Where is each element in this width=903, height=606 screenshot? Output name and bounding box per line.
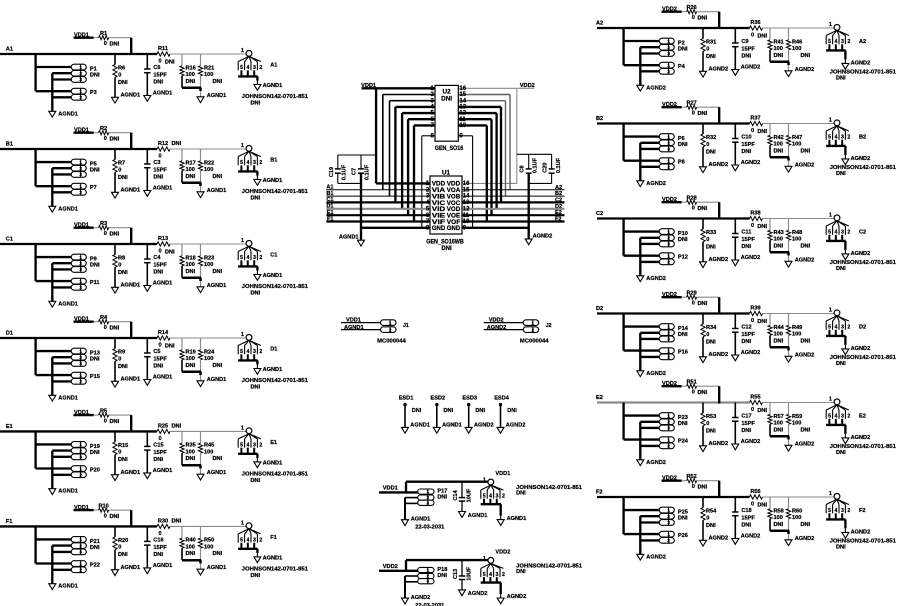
ground AGND2 under C10 (732, 165, 739, 171)
ground AGND1 under jack (254, 369, 261, 375)
svg-text:2: 2 (667, 355, 670, 360)
svg-text:DNI: DNI (774, 427, 784, 433)
ground AGND2 under connectors (637, 371, 644, 377)
wire C2 main horizontal (597, 217, 745, 219)
svg-text:3: 3 (667, 337, 670, 342)
svg-text:100: 100 (774, 515, 783, 521)
svg-text:2: 2 (847, 230, 850, 236)
svg-text:100: 100 (204, 72, 213, 78)
svg-text:P9: P9 (90, 257, 97, 263)
svg-text:AGND2: AGND2 (709, 352, 729, 358)
svg-text:DNI: DNI (836, 171, 846, 177)
wire connector pins to ground (639, 238, 641, 276)
svg-text:100: 100 (204, 544, 213, 550)
svg-text:DNI: DNI (741, 149, 751, 155)
wire decoupling rail left (338, 154, 376, 156)
svg-text:0: 0 (104, 136, 107, 142)
svg-text:DNI: DNI (836, 450, 846, 456)
svg-text:10UF: 10UF (466, 488, 472, 502)
svg-text:1: 1 (79, 160, 82, 165)
svg-text:R33: R33 (706, 230, 716, 236)
svg-text:AGND1: AGND1 (153, 186, 173, 192)
svg-text:0: 0 (118, 167, 121, 173)
svg-text:AGND1: AGND1 (58, 395, 78, 401)
svg-text:DNI: DNI (475, 408, 485, 414)
svg-text:3: 3 (667, 147, 670, 152)
svg-text:MC000044: MC000044 (520, 339, 550, 345)
wire VDD corner drop (718, 12, 720, 29)
capacitor C3 15PF DNI (146, 149, 148, 164)
svg-text:1: 1 (667, 134, 670, 139)
svg-text:R35: R35 (186, 443, 196, 449)
wire connector pins to ground (51, 263, 53, 301)
capacitor C18 15PF DNI (734, 497, 736, 512)
svg-text:C8: C8 (520, 165, 526, 172)
connector jack JOHNSON142-0701-851 DNI (488, 558, 494, 564)
resistor R55 0 DNI series (750, 400, 763, 404)
svg-text:DNI: DNI (741, 428, 751, 434)
ground AGND1 under R6 (112, 97, 119, 103)
svg-text:R57: R57 (774, 414, 784, 420)
wire to jack (745, 27, 750, 29)
resistor R17 100 DNI (181, 149, 183, 161)
wire D1 bus row (326, 208, 430, 210)
wire connector pins to ground (51, 168, 53, 206)
svg-text:R22: R22 (204, 160, 214, 166)
svg-text:DNI: DNI (110, 137, 120, 143)
svg-text:DNI: DNI (213, 174, 223, 180)
svg-text:GND: GND (447, 225, 461, 232)
svg-text:4: 4 (247, 65, 250, 71)
wire VDD rail (74, 321, 94, 323)
svg-text:15PF: 15PF (741, 237, 755, 243)
connector P20 2-pin (71, 466, 86, 472)
svg-text:DNI: DNI (678, 47, 688, 53)
svg-text:1: 1 (667, 348, 670, 353)
svg-text:P11: P11 (90, 280, 100, 286)
svg-text:0: 0 (158, 59, 161, 65)
resistor R21 100 DNI (200, 54, 202, 66)
wire U2 pin12 routing (458, 112, 496, 114)
svg-text:2: 2 (79, 543, 82, 548)
wire resistor bottoms join (182, 277, 201, 280)
wire VDD rail (74, 227, 94, 229)
svg-text:1: 1 (483, 477, 486, 483)
ground AGND1 under C5 (144, 380, 151, 386)
wire to jack (745, 312, 750, 314)
svg-text:16: 16 (463, 181, 470, 187)
svg-text:J2: J2 (546, 323, 552, 329)
svg-text:DNI: DNI (186, 456, 196, 462)
svg-text:DNI: DNI (441, 246, 452, 252)
wire A2 main horizontal (597, 27, 745, 29)
svg-text:DNI: DNI (118, 270, 128, 276)
ground AGND1 under connectors (49, 489, 56, 495)
svg-text:GEN_SO16WB: GEN_SO16WB (426, 239, 464, 245)
svg-text:DNI: DNI (757, 503, 767, 509)
resistor R11 0 DNI series (157, 52, 170, 56)
wire VDD rail (662, 106, 682, 108)
connector P13 3-pin DNI (71, 348, 86, 354)
svg-text:1: 1 (241, 332, 244, 338)
connector P2 3-pin DNI (659, 38, 674, 44)
ground AGND1 under R9 (112, 381, 119, 387)
svg-text:DNI: DNI (836, 361, 846, 367)
svg-text:R27: R27 (686, 101, 696, 107)
svg-text:DNI: DNI (186, 79, 196, 85)
svg-text:VDD2: VDD2 (383, 564, 398, 570)
resistor R6 0 DNI shunt (114, 54, 116, 65)
svg-text:100: 100 (792, 236, 801, 242)
svg-text:DNI: DNI (757, 129, 767, 135)
ground AGND1 under R20 (112, 570, 119, 576)
ground AGND2 under R46 (785, 71, 792, 77)
svg-text:DNI: DNI (678, 516, 688, 522)
svg-text:DNI: DNI (836, 266, 846, 272)
svg-text:R16: R16 (186, 65, 196, 71)
ground AGND1 under connectors (49, 206, 56, 212)
svg-text:3: 3 (79, 77, 82, 82)
svg-text:15PF: 15PF (153, 450, 167, 456)
wire VDD corner drop (130, 322, 132, 339)
svg-text:C6: C6 (153, 65, 160, 71)
svg-text:AGND2: AGND2 (795, 257, 815, 263)
svg-text:DNI: DNI (213, 363, 223, 369)
ground AGND1 under P17 (402, 520, 409, 526)
svg-text:AGND1: AGND1 (263, 460, 283, 466)
wire to connector pins (622, 314, 624, 351)
svg-text:0: 0 (158, 436, 161, 442)
resistor R30 0 DNI series (157, 524, 170, 528)
svg-text:2: 2 (79, 166, 82, 171)
svg-text:2: 2 (847, 325, 850, 331)
svg-text:100: 100 (792, 515, 801, 521)
svg-text:AGND1: AGND1 (153, 281, 173, 287)
ground AGND1 under R22 (197, 192, 204, 198)
wire U2 pin3 routing (390, 100, 436, 102)
svg-text:0: 0 (692, 206, 695, 212)
connector P3 2-pin (71, 88, 86, 94)
svg-text:P20: P20 (90, 467, 100, 473)
resistor R36 0 DNI series (750, 26, 763, 30)
svg-text:DNI: DNI (836, 76, 846, 82)
svg-text:2: 2 (667, 260, 670, 265)
wire to connector pins (34, 54, 36, 91)
svg-text:3: 3 (79, 172, 82, 177)
resistor R13 0 DNI series (157, 242, 170, 246)
resistor R44 100 DNI (769, 314, 771, 326)
svg-text:DNI: DNI (801, 427, 811, 433)
wire resistor bottoms join (182, 87, 201, 90)
connector jack A2 JOHNSON142-0701-851 (834, 25, 840, 31)
resistor R46 100 DNI (788, 28, 790, 40)
wire connector pins to ground (51, 357, 53, 395)
wire U2 pin5 routing (402, 112, 435, 114)
svg-text:AGND2: AGND2 (411, 595, 431, 601)
svg-text:2: 2 (259, 349, 262, 355)
ground AGND2 under R59 (785, 445, 792, 451)
svg-text:P5: P5 (90, 162, 97, 168)
connector jack B2 JOHNSON142-0701-851 (834, 120, 840, 126)
wire VDD rail (662, 201, 682, 203)
svg-text:100: 100 (204, 356, 213, 362)
svg-text:1: 1 (667, 508, 670, 513)
svg-text:AGND1: AGND1 (411, 517, 431, 523)
connector jack A1 JOHNSON142-0701-851 (246, 51, 252, 57)
svg-text:5: 5 (240, 65, 243, 71)
svg-text:3: 3 (79, 455, 82, 460)
svg-text:15PF: 15PF (153, 357, 167, 363)
svg-text:P22: P22 (90, 562, 100, 568)
svg-text:DNI: DNI (213, 269, 223, 275)
svg-text:0: 0 (751, 128, 754, 134)
resistor R10 0 DNI (99, 508, 109, 512)
resistor R4 0 DNI (99, 320, 109, 324)
wire to jack (156, 243, 158, 245)
svg-text:B2: B2 (859, 135, 866, 141)
svg-text:DNI: DNI (706, 54, 716, 60)
svg-text:100: 100 (186, 356, 195, 362)
svg-text:1: 1 (667, 253, 670, 258)
svg-text:2: 2 (79, 473, 82, 478)
svg-text:0.1UF: 0.1UF (532, 157, 538, 173)
svg-text:0: 0 (118, 356, 121, 362)
svg-text:AGND1: AGND1 (58, 584, 78, 590)
capacitor C12 15PF DNI (734, 314, 736, 329)
svg-text:DNI: DNI (90, 545, 100, 551)
svg-text:AGND1: AGND1 (339, 235, 359, 241)
svg-text:DNI: DNI (90, 357, 100, 363)
wire VDD1 to U2 pin1 and down to U1 pin1 (362, 87, 436, 89)
svg-text:DNI: DNI (186, 551, 196, 557)
svg-text:AGND1: AGND1 (58, 301, 78, 307)
svg-text:DNI: DNI (741, 244, 751, 250)
svg-text:AGND1: AGND1 (121, 565, 141, 571)
resistor R48 100 DNI (788, 219, 790, 231)
svg-text:R51: R51 (686, 380, 696, 386)
capacitor C9 15PF DNI (734, 28, 736, 43)
svg-text:AGND1: AGND1 (121, 93, 141, 99)
svg-text:AGND2: AGND2 (741, 534, 761, 540)
resistor R43 100 DNI (769, 219, 771, 231)
svg-text:C11: C11 (741, 230, 751, 236)
svg-text:DNI: DNI (698, 111, 708, 117)
svg-text:D2: D2 (859, 325, 866, 331)
svg-text:100: 100 (792, 46, 801, 52)
ground AGND2 under connectors (637, 85, 644, 91)
wire to jack (156, 337, 158, 339)
svg-text:AGND2: AGND2 (646, 85, 666, 91)
svg-text:AGND2: AGND2 (709, 441, 729, 447)
svg-text:R40: R40 (186, 538, 196, 544)
svg-text:R19: R19 (186, 349, 196, 355)
svg-text:DNI: DNI (110, 419, 120, 425)
svg-text:3: 3 (79, 550, 82, 555)
svg-text:P4: P4 (678, 64, 686, 70)
resistor R58 100 DNI (769, 497, 771, 509)
svg-text:0: 0 (692, 484, 695, 490)
svg-text:100: 100 (792, 141, 801, 147)
svg-text:14: 14 (463, 194, 470, 200)
svg-text:P24: P24 (678, 438, 689, 444)
svg-text:1: 1 (79, 89, 82, 94)
wire connector pins to ground (639, 333, 641, 371)
svg-text:P14: P14 (678, 326, 689, 332)
resistor R31 0 DNI shunt (702, 28, 704, 39)
resistor R9 0 DNI shunt (114, 338, 116, 349)
wire resistor bottoms join (770, 346, 789, 349)
svg-text:DNI: DNI (706, 244, 716, 250)
wire E1 main horizontal (0, 430, 157, 432)
op-amp U2 GEN_SO16 DNI (435, 85, 458, 141)
svg-text:AGND1: AGND1 (153, 91, 173, 97)
svg-text:2: 2 (667, 420, 670, 425)
svg-text:DNI: DNI (698, 16, 708, 22)
svg-text:P13: P13 (90, 351, 100, 357)
wire connector pins to ground (639, 516, 641, 554)
svg-text:P25: P25 (678, 510, 688, 516)
svg-text:JOHNSON142-0701-851: JOHNSON142-0701-851 (242, 567, 308, 573)
svg-text:5: 5 (240, 538, 243, 544)
ground AGND1 central (360, 173, 362, 240)
svg-text:4: 4 (247, 538, 250, 544)
svg-text:JOHNSON142-0701-851: JOHNSON142-0701-851 (242, 189, 308, 195)
svg-text:DNI: DNI (90, 263, 100, 269)
svg-text:15PF: 15PF (153, 263, 167, 269)
svg-text:DNI: DNI (678, 332, 688, 338)
svg-text:DNI: DNI (706, 339, 716, 345)
op-amp U1 GEN_SO16WB DNI (430, 176, 462, 234)
svg-text:DNI: DNI (516, 569, 526, 575)
wire U2 pin11 routing (458, 118, 491, 120)
svg-text:10: 10 (459, 123, 466, 129)
svg-text:DNI: DNI (251, 101, 261, 107)
svg-text:15PF: 15PF (741, 421, 755, 427)
svg-text:2: 2 (667, 165, 670, 170)
svg-text:0.1UF: 0.1UF (365, 164, 371, 180)
resistor R24 100 DNI (200, 338, 202, 350)
wire VDD corner drop (130, 415, 132, 432)
svg-text:ESD4: ESD4 (494, 395, 510, 401)
svg-text:DNI: DNI (774, 148, 784, 154)
ground AGND1 under C14 (459, 512, 466, 518)
svg-text:DNI: DNI (251, 291, 261, 297)
ground AGND1 under jack (254, 275, 261, 281)
svg-text:1: 1 (667, 532, 670, 537)
svg-text:DNI: DNI (153, 552, 163, 558)
wire GND row right (462, 227, 529, 229)
svg-text:C10: C10 (741, 135, 751, 141)
svg-text:R2: R2 (100, 126, 107, 132)
svg-text:DNI: DNI (110, 42, 120, 48)
connector jack D2 JOHNSON142-0701-851 (834, 310, 840, 316)
svg-text:C3: C3 (153, 160, 160, 166)
svg-text:R49: R49 (792, 325, 802, 331)
svg-text:R12: R12 (158, 141, 168, 147)
ground AGND2 under C12 (732, 355, 739, 361)
svg-text:AGND1: AGND1 (58, 489, 78, 495)
resistor R2 0 DNI (99, 131, 109, 135)
capacitor C20 0.1UF (551, 154, 553, 169)
svg-text:GND: GND (432, 225, 446, 232)
svg-text:15PF: 15PF (153, 168, 167, 174)
svg-text:DNI: DNI (165, 250, 175, 256)
svg-text:1: 1 (79, 537, 82, 542)
svg-text:AGND2: AGND2 (741, 160, 761, 166)
svg-text:2: 2 (847, 39, 850, 45)
svg-text:R50: R50 (204, 538, 214, 544)
svg-text:0: 0 (104, 41, 107, 47)
svg-text:0: 0 (706, 332, 709, 338)
svg-text:DNI: DNI (757, 319, 767, 325)
ground AGND2 under R49 (785, 356, 792, 362)
resistor R33 0 DNI shunt (702, 219, 704, 230)
wire B2 bus row (462, 195, 565, 197)
svg-text:VDD1: VDD1 (383, 485, 398, 491)
resistor R51 0 DNI (687, 384, 697, 388)
svg-text:DNI: DNI (698, 390, 708, 396)
svg-text:2: 2 (79, 95, 82, 100)
connector P23 3-pin DNI (659, 413, 674, 419)
svg-text:R10: R10 (98, 503, 108, 509)
connector P1 3-pin DNI (71, 64, 86, 70)
svg-text:DNI: DNI (110, 232, 120, 238)
svg-text:R41: R41 (774, 39, 784, 45)
connector P12 2-pin (659, 253, 674, 259)
wire U2 pin7 routing (414, 124, 435, 126)
svg-text:DNI: DNI (774, 53, 784, 59)
svg-text:R1: R1 (100, 31, 107, 37)
wire VDD corner drop (130, 228, 132, 245)
svg-text:DNI: DNI (774, 243, 784, 249)
svg-text:0: 0 (118, 262, 121, 268)
connector jack C2 JOHNSON142-0701-851 (834, 215, 840, 221)
svg-text:DNI: DNI (437, 573, 447, 579)
ground AGND2 under R47 (785, 166, 792, 172)
svg-text:E2: E2 (859, 414, 866, 420)
svg-text:J1: J1 (403, 323, 409, 329)
svg-text:R25: R25 (158, 424, 168, 430)
svg-text:R26: R26 (686, 5, 696, 11)
wire connector pins to ground (639, 143, 641, 181)
svg-text:100: 100 (204, 167, 213, 173)
capacitor C14 10UF (461, 482, 463, 498)
svg-text:VDD1: VDD1 (495, 471, 510, 477)
svg-text:F1: F1 (270, 535, 277, 541)
svg-text:DNI: DNI (741, 339, 751, 345)
svg-text:15PF: 15PF (153, 73, 167, 79)
ground AGND2 under jack (842, 63, 849, 69)
resistor R1 0 DNI (99, 36, 109, 40)
connector P25 3-pin DNI (659, 507, 674, 513)
svg-text:DNI: DNI (698, 301, 708, 307)
svg-text:DNI: DNI (801, 148, 811, 154)
svg-text:1: 1 (79, 279, 82, 284)
ground AGND2 under C9 (732, 70, 739, 76)
svg-text:ESD3: ESD3 (462, 395, 477, 401)
svg-text:2: 2 (79, 261, 82, 266)
capacitor C6 15PF DNI (146, 54, 148, 69)
svg-text:AGND2: AGND2 (646, 460, 666, 466)
svg-text:3: 3 (427, 500, 430, 505)
svg-text:AGND2: AGND2 (646, 181, 666, 187)
wire to jack (156, 525, 158, 527)
svg-text:13: 13 (463, 200, 470, 206)
svg-text:P26: P26 (678, 533, 688, 539)
svg-text:1: 1 (829, 213, 832, 219)
ground AGND2 under R48 (785, 261, 792, 267)
wire connector pins to ground (639, 47, 641, 85)
